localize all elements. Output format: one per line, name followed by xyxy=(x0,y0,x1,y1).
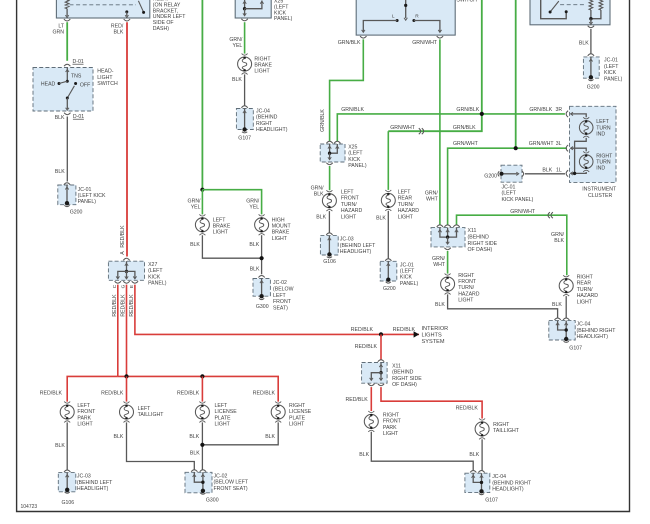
connector X25 (left kick panel, brake circuit) xyxy=(235,0,271,18)
svg-text:RIGHT SIDE: RIGHT SIDE xyxy=(468,241,498,247)
svg-text:(BELOW LEFT: (BELOW LEFT xyxy=(214,480,249,486)
svg-text:RED/BLK: RED/BLK xyxy=(101,390,124,396)
svg-text:GRN/WHT: GRN/WHT xyxy=(510,209,536,215)
svg-text:LIGHT: LIGHT xyxy=(577,299,593,305)
label BLK (left license) xyxy=(189,434,199,440)
svg-text:BLK: BLK xyxy=(469,452,479,458)
label BLK (left front park) xyxy=(55,443,65,449)
svg-text:RED/BLK: RED/BLK xyxy=(121,294,127,317)
svg-text:RIGHT: RIGHT xyxy=(254,56,271,62)
label BLK below D-01 xyxy=(55,115,65,121)
junction dot (left license light tap) xyxy=(200,374,204,378)
svg-text:TURN: TURN xyxy=(596,160,611,166)
label RED/BLK (vertical, pin E wire) xyxy=(129,294,135,317)
svg-text:(BEHIND: (BEHIND xyxy=(468,234,490,240)
label JC-04 (behind right headlight, turn) xyxy=(577,322,617,340)
lamp left taillight xyxy=(120,402,134,423)
svg-text:GRN/BLK: GRN/BLK xyxy=(320,109,326,132)
label RED/BLK (left front park) xyxy=(40,390,63,396)
svg-text:LEFT: LEFT xyxy=(398,190,412,196)
svg-text:WHT: WHT xyxy=(433,262,446,268)
svg-text:R: R xyxy=(415,13,419,19)
svg-text:HAZARD: HAZARD xyxy=(398,208,420,214)
svg-text:G106: G106 xyxy=(62,500,75,506)
svg-text:HIGH: HIGH xyxy=(272,217,285,223)
junction dot (brake light split) xyxy=(200,188,204,192)
label RIGHT BRAKE LIGHT xyxy=(254,56,272,74)
label JC-03 (behind left headlight) xyxy=(77,474,113,492)
label LEFT TAILLIGHT xyxy=(138,406,165,418)
junction dot (hazard B joins 3L line) xyxy=(514,146,518,150)
svg-text:RIGHT: RIGHT xyxy=(256,121,273,127)
svg-text:G200: G200 xyxy=(587,84,600,90)
label GRN/BLK (under switch) xyxy=(338,40,361,46)
ground G200 (left rear turn) xyxy=(383,278,396,292)
pin chevron under X11 turn xyxy=(444,248,450,250)
svg-text:LIGHT: LIGHT xyxy=(97,75,113,81)
label X25 (left kick panel, brake) xyxy=(274,0,293,22)
svg-text:LIGHT: LIGHT xyxy=(289,422,305,428)
pin chevron under K1 right pin xyxy=(124,19,130,21)
junction dot (license lights ground) xyxy=(200,443,204,447)
label RIGHT REAR TURN/HAZARD LIGHT xyxy=(577,275,599,306)
label INSTRUMENT CLUSTER xyxy=(582,187,617,199)
svg-text:OFF: OFF xyxy=(80,83,90,89)
label X27 (left kick panel) xyxy=(148,262,167,287)
pin chevron under K2 xyxy=(588,26,594,28)
svg-text:FRONT: FRONT xyxy=(341,196,360,202)
wire RED/BLK (X11 to right front park light) xyxy=(370,387,372,411)
svg-text:JC-01: JC-01 xyxy=(502,184,516,190)
junction connector JC-04 (behind right headlight, park circuit) xyxy=(465,471,490,493)
pin chevron under turn switch L xyxy=(360,36,366,38)
connector X11 (behind right side of dash, park lights) xyxy=(362,360,388,386)
label RED/BLK (right front park light) xyxy=(345,397,368,403)
label GRN/BLK (left front turn) xyxy=(311,185,325,197)
svg-text:LIGHT: LIGHT xyxy=(458,298,474,304)
wire RED/BLK pin G (X27 to left taillight) xyxy=(126,285,128,377)
svg-text:PLATE: PLATE xyxy=(289,415,306,421)
svg-text:JC-02: JC-02 xyxy=(214,474,228,480)
svg-text:RED/BLK: RED/BLK xyxy=(345,397,368,403)
wire BLK (right front turn ground) xyxy=(448,294,558,318)
label GRN/BLK (vertical) xyxy=(320,109,326,132)
wire BLK (left front turn ground) xyxy=(328,211,330,233)
label X11 (behind right side of dash) xyxy=(392,364,422,389)
junction dot (brake grounds join) xyxy=(260,256,264,260)
label HIGH MOUNT BRAKE LIGHT xyxy=(272,217,292,242)
connector exit chevron (JC-01 right) xyxy=(522,171,524,177)
svg-text:IND: IND xyxy=(596,132,605,138)
svg-text:X27: X27 xyxy=(148,262,157,268)
svg-text:CLUSTER: CLUSTER xyxy=(588,193,612,199)
svg-text:INSTRUMENT: INSTRUMENT xyxy=(582,187,617,193)
label RED/BLK (left of junction) xyxy=(351,327,374,333)
svg-text:BLK: BLK xyxy=(250,267,260,273)
svg-text:G200: G200 xyxy=(383,286,396,292)
svg-text:GRN/BLK: GRN/BLK xyxy=(529,107,552,113)
svg-text:RED/BLK: RED/BLK xyxy=(393,327,416,333)
svg-text:BLK: BLK xyxy=(376,216,386,222)
label JC-01 (left kick panel, turn) xyxy=(400,262,419,287)
svg-text:TURN/: TURN/ xyxy=(577,287,593,293)
instrument cluster (left/right turn indicators) xyxy=(566,106,616,182)
wire RED/BLK bus (park lights) xyxy=(67,376,278,401)
svg-text:PARK: PARK xyxy=(383,425,397,431)
label GRN/WHT (3L line left) xyxy=(453,141,479,147)
lamp left rear turn/hazard light xyxy=(381,190,395,211)
svg-text:RED/BLK: RED/BLK xyxy=(40,390,63,396)
ground G107 (park circuit) xyxy=(479,489,498,503)
svg-text:HEAD-: HEAD- xyxy=(97,69,113,75)
svg-text:PLATE: PLATE xyxy=(215,415,232,421)
svg-text:REAR: REAR xyxy=(398,196,413,202)
svg-text:GRN/BLK: GRN/BLK xyxy=(456,107,479,113)
svg-text:BLK: BLK xyxy=(55,443,65,449)
svg-text:3L: 3L xyxy=(556,141,562,147)
svg-text:LEFT: LEFT xyxy=(341,190,355,196)
relay K2 (turn/hazard flasher relay) xyxy=(530,0,610,25)
label BLK (relay K2) xyxy=(579,40,589,46)
svg-text:LIGHT: LIGHT xyxy=(213,230,229,236)
svg-text:(LEFT: (LEFT xyxy=(502,191,517,197)
label BLK (below junction) xyxy=(190,450,200,456)
lamp left brake light xyxy=(195,214,209,235)
label RED/BLK (right of junction) xyxy=(393,327,416,333)
wire GRN/YEL (X25 to right brake light) xyxy=(244,22,246,53)
wire BLK 1L (JC-01 to cluster) xyxy=(525,173,565,175)
svg-text:KICK: KICK xyxy=(400,275,413,281)
svg-text:JC-01: JC-01 xyxy=(400,262,414,268)
label JC-02 (below left front seat, brake) xyxy=(273,280,294,312)
pin label E (X27) xyxy=(129,285,135,288)
lamp right rear turn/hazard light xyxy=(559,275,573,296)
svg-text:(LEFT: (LEFT xyxy=(604,64,619,70)
label RED/BLK (right taillight) xyxy=(456,405,479,411)
lamp right taillight xyxy=(475,419,489,440)
lamp left front park light xyxy=(60,402,74,423)
svg-text:TAILLIGHT: TAILLIGHT xyxy=(493,428,520,434)
svg-text:LEFT: LEFT xyxy=(596,119,610,125)
svg-text:G106: G106 xyxy=(323,259,336,265)
svg-text:JC-02: JC-02 xyxy=(273,280,287,286)
label BLK (left rear turn) xyxy=(376,216,386,222)
svg-text:GRN/WHT: GRN/WHT xyxy=(453,141,479,147)
label GRN/WHT (right rear feed) xyxy=(510,209,536,215)
wire BLK (high mount ground) xyxy=(261,235,263,274)
junction connector JC-01 (left kick panel, relay ground) xyxy=(583,54,599,78)
svg-text:YEL: YEL xyxy=(232,43,242,49)
wire RED/BLK pin E (X27 to interior lights feed) xyxy=(135,285,419,335)
svg-text:G300: G300 xyxy=(206,498,219,504)
svg-text:SWITCH: SWITCH xyxy=(97,81,118,87)
svg-text:GRN/WHT: GRN/WHT xyxy=(412,40,438,46)
label RED/BLK (above X11) xyxy=(355,344,378,350)
svg-text:G200: G200 xyxy=(484,173,497,179)
label GRN/WHT (right front turn) xyxy=(432,256,446,268)
svg-text:YEL: YEL xyxy=(249,204,259,210)
svg-text:BLK: BLK xyxy=(55,115,65,121)
label LT GRN xyxy=(52,24,64,36)
svg-text:IND: IND xyxy=(596,166,605,172)
label BLK 1L xyxy=(542,167,561,173)
svg-text:LICENSE: LICENSE xyxy=(215,409,238,415)
svg-text:LIGHT: LIGHT xyxy=(215,422,231,428)
label JC-02 (below left front seat) xyxy=(214,474,249,492)
svg-text:HEADLIGHT): HEADLIGHT) xyxy=(492,487,524,493)
svg-text:BLK: BLK xyxy=(113,434,123,440)
svg-text:GRN/BLK: GRN/BLK xyxy=(341,107,364,113)
wire BLK (left taillight to JC-02) xyxy=(127,422,195,470)
ground G200 (cluster) xyxy=(484,173,497,179)
svg-text:TNS: TNS xyxy=(71,74,82,80)
svg-text:(LEFT: (LEFT xyxy=(348,151,363,157)
svg-text:KICK: KICK xyxy=(604,70,617,76)
svg-text:SEAT): SEAT) xyxy=(273,306,288,312)
label RED/BLK (vertical, near X27) xyxy=(120,225,126,248)
svg-text:PANEL): PANEL) xyxy=(604,76,623,82)
label GRN/BLK (right rear drop) xyxy=(551,232,565,244)
label GRN/WHT (under switch) xyxy=(412,40,438,46)
wire GRN/BLK (X25 to left front turn light) xyxy=(329,166,331,190)
svg-text:KICK PANEL): KICK PANEL) xyxy=(502,197,534,203)
svg-text:PANEL): PANEL) xyxy=(400,281,419,287)
junction on RED/BLK feed (to X11) xyxy=(379,332,383,336)
wire BLK (headlight switch to JC-01) xyxy=(66,117,68,182)
label RIGHT FRONT PARK LIGHT xyxy=(383,413,402,438)
wire GRN/BLK (hazard feed A from top) xyxy=(388,0,482,131)
lamp left license plate light xyxy=(195,402,209,423)
svg-text:BLK: BLK xyxy=(190,450,200,456)
svg-text:WHT: WHT xyxy=(426,197,439,203)
svg-text:(BEHIND: (BEHIND xyxy=(256,115,278,121)
svg-text:LIGHT: LIGHT xyxy=(77,422,93,428)
pin chevron under X25 xyxy=(241,19,247,21)
svg-text:BRAKE: BRAKE xyxy=(254,63,272,69)
svg-text:HAZARD: HAZARD xyxy=(458,291,480,297)
label BLK xyxy=(55,169,65,175)
junction connector JC-01 (left kick panel, left rear turn) xyxy=(380,259,397,281)
svg-text:RED/BLK: RED/BLK xyxy=(355,344,378,350)
relay K1 location label xyxy=(153,0,186,32)
svg-text:RED/BLK: RED/BLK xyxy=(351,327,374,333)
svg-text:RELAY: RELAY xyxy=(153,0,170,2)
svg-text:PANEL): PANEL) xyxy=(78,199,97,205)
lamp right front park light xyxy=(364,411,378,432)
svg-text:BLK: BLK xyxy=(316,215,326,221)
svg-text:BLK: BLK xyxy=(113,30,123,36)
label LEFT REAR TURN/HAZARD LIGHT xyxy=(398,190,420,221)
wire BLK (right brake light to JC-04) xyxy=(244,74,246,105)
wire BLK (right rear turn ground) xyxy=(565,296,567,318)
ground G300 (brake circuit) xyxy=(256,294,269,310)
svg-text:HEAD: HEAD xyxy=(41,82,56,88)
svg-text:TURN/: TURN/ xyxy=(398,202,414,208)
pin label G (X27) xyxy=(121,284,127,288)
svg-text:G107: G107 xyxy=(485,498,498,504)
svg-text:HEADLIGHT): HEADLIGHT) xyxy=(77,486,109,492)
svg-text:BLK: BLK xyxy=(249,242,259,248)
wire GRN/WHT 3L (to X11 pin 2 and cluster) xyxy=(448,148,567,224)
svg-text:GRN/BLK: GRN/BLK xyxy=(453,125,476,131)
svg-text:JC-03: JC-03 xyxy=(77,474,91,480)
wire GRN/BLK (to left rear turn light) xyxy=(387,131,389,190)
label BLK (high mount) xyxy=(249,242,259,248)
label X25 (left kick panel, turn) xyxy=(348,145,367,170)
wire LT GRN (relay K1 to headlight switch) xyxy=(66,22,68,61)
svg-text:RED/BLK: RED/BLK xyxy=(177,390,200,396)
svg-text:INTERIOR: INTERIOR xyxy=(422,326,449,332)
svg-text:JC-04: JC-04 xyxy=(577,322,591,328)
wire RED/BLK (relay K1 to connector X27 pin A) xyxy=(126,22,128,256)
svg-text:KICK: KICK xyxy=(148,274,161,280)
label BLK (left front turn) xyxy=(316,215,326,221)
svg-text:(LEFT KICK: (LEFT KICK xyxy=(78,193,106,199)
svg-text:RIGHT: RIGHT xyxy=(493,422,510,428)
svg-text:PANEL): PANEL) xyxy=(274,16,293,22)
inline connector on right rear feed xyxy=(548,212,553,218)
pin label A (X27) xyxy=(120,251,126,255)
diagram number 104723 xyxy=(21,504,38,510)
svg-text:YEL: YEL xyxy=(191,204,201,210)
wire RED/BLK (left license drop) xyxy=(201,376,203,401)
svg-text:MOUNT: MOUNT xyxy=(272,224,292,230)
ground G107 (brake circuit) xyxy=(238,127,251,141)
ground G106 (turn circuit) xyxy=(323,252,336,265)
svg-text:LIGHT: LIGHT xyxy=(272,236,288,242)
svg-text:BLK: BLK xyxy=(232,77,242,83)
headlight switch label xyxy=(97,69,118,87)
pin chevron under X25 turn xyxy=(326,163,332,165)
label LEFT FRONT PARK LIGHT xyxy=(77,403,96,428)
wire BLK (right license to junction) xyxy=(202,422,278,444)
label GRN/WHT 3L (at cluster) xyxy=(529,141,562,147)
connector D-01 (top) xyxy=(64,59,84,66)
svg-text:RIGHT: RIGHT xyxy=(289,403,306,409)
svg-text:RED/BLK: RED/BLK xyxy=(129,294,135,317)
svg-text:BLK: BLK xyxy=(55,169,65,175)
svg-text:GRN: GRN xyxy=(52,30,64,36)
svg-text:(BEHIND: (BEHIND xyxy=(392,370,414,376)
svg-text:PANEL): PANEL) xyxy=(348,163,367,169)
svg-text:G107: G107 xyxy=(569,345,582,351)
wire BLK (left license to junction) xyxy=(201,422,203,470)
label GRN/YEL (left brake light) xyxy=(188,198,202,210)
svg-text:RIGHT: RIGHT xyxy=(383,413,400,419)
svg-text:(BEHIND RIGHT: (BEHIND RIGHT xyxy=(492,480,532,486)
label BLK (right rear turn) xyxy=(552,302,562,308)
label RED/BLK (left taillight) xyxy=(101,390,124,396)
junction connector JC-02 (below left front seat, brake circuit) xyxy=(253,276,270,297)
svg-text:(BEHIND LEFT: (BEHIND LEFT xyxy=(77,480,113,486)
label GRN/WHT (left rear feed) xyxy=(390,125,416,131)
label GRN/WHT (above X11) xyxy=(425,191,439,203)
svg-text:L: L xyxy=(392,13,395,19)
svg-text:LIGHT: LIGHT xyxy=(398,214,414,220)
svg-text:LEFT: LEFT xyxy=(215,403,229,409)
wire RED/BLK (junction to X11) xyxy=(380,334,382,359)
connector X11 (behind right side of dash, turn circuit) xyxy=(431,225,465,247)
svg-text:GRN/BLK: GRN/BLK xyxy=(338,40,361,46)
svg-text:JC-01: JC-01 xyxy=(604,58,618,64)
lamp right front turn/hazard light xyxy=(441,274,455,295)
svg-text:X11: X11 xyxy=(392,364,401,370)
junction connector JC-04 (behind right headlight, brake circuit) xyxy=(236,106,253,130)
svg-text:DASH): DASH) xyxy=(153,26,169,32)
svg-text:(BEHIND LEFT: (BEHIND LEFT xyxy=(340,243,376,249)
lamp left front turn/hazard light xyxy=(322,190,336,211)
svg-text:BLK: BLK xyxy=(579,40,589,46)
connector D-01 (bottom) xyxy=(64,113,84,120)
label JC-01 (left kick panel) xyxy=(78,187,106,205)
pin label C (X27) xyxy=(112,284,118,288)
turn signal switch label (cut off) xyxy=(456,0,477,3)
svg-text:FRONT: FRONT xyxy=(77,409,96,415)
svg-text:TURN/: TURN/ xyxy=(341,202,357,208)
label GRN/YEL (high mount) xyxy=(246,198,260,210)
label RED/BLK (right license) xyxy=(253,390,276,396)
svg-text:BLK: BLK xyxy=(189,434,199,440)
svg-text:BLK: BLK xyxy=(435,302,445,308)
label RED/BLK (left license) xyxy=(177,390,200,396)
svg-text:JC-03: JC-03 xyxy=(340,237,354,243)
label JC-01 (left kick panel, cluster) xyxy=(502,184,534,202)
junction dot (left taillight tap) xyxy=(124,374,128,378)
ground G300 (park circuit) xyxy=(200,489,218,504)
svg-text:FRONT: FRONT xyxy=(458,279,477,285)
label BLK (right license) xyxy=(265,434,275,440)
wire BLK (left brake light ground) xyxy=(202,235,261,258)
relay K1 (headlight relay, on relay bracket) xyxy=(56,0,149,18)
svg-text:OF DASH): OF DASH) xyxy=(392,382,417,388)
svg-text:HEADLIGHT): HEADLIGHT) xyxy=(340,249,372,255)
svg-text:LICENSE: LICENSE xyxy=(289,409,312,415)
svg-text:RED/BLK: RED/BLK xyxy=(120,225,126,248)
svg-text:A: A xyxy=(120,251,126,255)
wire BLK (right taillight to JC-04) xyxy=(481,439,483,470)
wire BLK (left front park to JC-03) xyxy=(66,422,68,470)
svg-text:HAZARD: HAZARD xyxy=(341,208,363,214)
svg-text:G300: G300 xyxy=(256,304,269,310)
svg-text:RED/BLK: RED/BLK xyxy=(253,390,276,396)
label JC-01 (left kick panel, relay) xyxy=(604,58,623,83)
wire GRN/WHT (hazard feed B from top) xyxy=(515,0,517,148)
connector X25 (left kick panel, turn circuit) xyxy=(320,141,345,162)
svg-text:RIGHT: RIGHT xyxy=(596,153,613,159)
svg-text:BLK: BLK xyxy=(554,238,564,244)
label BLK (right brake light) xyxy=(232,77,242,83)
wire GRN/YEL (to left brake light) xyxy=(201,190,203,215)
label INTERIOR LIGHTS SYSTEM xyxy=(422,326,449,345)
svg-text:BRAKE: BRAKE xyxy=(272,230,290,236)
svg-text:REAR: REAR xyxy=(577,281,592,287)
junction connector JC-02 (below left front seat, park circuit) xyxy=(185,470,212,493)
lamp high mount brake light xyxy=(255,214,269,235)
label RIGHT FRONT TURN/HAZARD LIGHT xyxy=(458,273,480,304)
svg-text:RIGHT SIDE: RIGHT SIDE xyxy=(392,376,422,382)
svg-text:BLK: BLK xyxy=(190,242,200,248)
svg-text:(LEFT: (LEFT xyxy=(148,268,163,274)
svg-text:OF DASH): OF DASH) xyxy=(468,247,493,253)
wire GRN/WHT (switch R to X11 pin 1) xyxy=(439,39,441,224)
svg-text:KICK: KICK xyxy=(348,157,361,163)
label GRN/BLK (3R bus right) xyxy=(456,107,479,113)
svg-text:LEFT: LEFT xyxy=(213,217,227,223)
wire GRN/YEL (to high mount brake light) xyxy=(202,190,261,215)
junction connector JC-01 (left kick panel) xyxy=(58,183,76,205)
label BLK (right taillight) xyxy=(469,452,479,458)
svg-text:LEFT: LEFT xyxy=(138,406,152,412)
